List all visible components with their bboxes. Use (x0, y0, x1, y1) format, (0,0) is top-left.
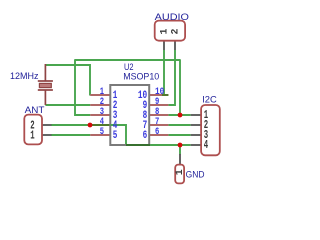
svg-text:4: 4 (204, 139, 208, 152)
wire W2 horizontal top (75, 59, 180, 61)
connector GND stub (179, 154, 181, 164)
connector I2C stubs (191, 115, 201, 145)
svg-text:1: 1 (174, 169, 185, 175)
svg-text:5: 5 (100, 126, 104, 138)
op-amp U2 body MSOP10 (110, 85, 149, 145)
connector AUDIO stubs (164, 41, 175, 50)
pin 8 stub (150, 114, 169, 116)
connector AUDIO box (155, 21, 185, 41)
pin 1 stub (90, 94, 109, 96)
wire ANT pin1 to IC pin5 (51, 134, 90, 136)
svg-text:12MHz: 12MHz (10, 71, 39, 82)
wire inside box pin4 (110, 125, 126, 144)
connector ANT box (24, 115, 42, 145)
crystal top plate (38, 80, 53, 82)
wire over box bottom dark (126, 144, 150, 146)
svg-text:AUDIO: AUDIO (155, 12, 189, 23)
svg-text:ANT: ANT (25, 105, 45, 116)
crystal bottom lead (44, 90, 46, 105)
wire ANT pin2 to IC pin4 (51, 124, 90, 126)
crystal top lead (44, 64, 46, 81)
connector GND box (175, 165, 184, 184)
wire crystal bottom to IC pin2 (45, 104, 90, 106)
wire IC pin4 net under box to I2C pin4 (110, 125, 191, 145)
wire IC pin6 to I2C pin3 (168, 134, 190, 136)
svg-text:6: 6 (155, 126, 159, 138)
svg-text:2: 2 (170, 28, 181, 34)
junction D2 (178, 113, 183, 118)
pin numbers outside left (100, 86, 104, 138)
wire crystal top to IC pin1 (45, 65, 90, 96)
pin numbers inside right (138, 90, 148, 142)
svg-text:1: 1 (159, 28, 170, 34)
wire IC pin8 to I2C pin1 (168, 114, 190, 116)
connector ANT stubs (42, 125, 52, 135)
wire W2 vertical left down to pin3 (75, 59, 90, 115)
svg-text:5: 5 (113, 130, 118, 142)
pin numbers outside right (155, 86, 164, 138)
wire AUDIO pin1 down to IC pin10 (163, 50, 165, 95)
svg-text:6: 6 (143, 130, 148, 142)
pin 10 stub (150, 94, 169, 96)
pin 3 stub (90, 114, 109, 116)
wire overlap olive on pin4 stub (90, 124, 109, 126)
svg-text:U2: U2 (124, 62, 134, 72)
svg-text:I2C: I2C (202, 94, 217, 105)
wire IC pin7 to I2C pin2 (168, 124, 190, 126)
pin 4 stub (90, 124, 109, 126)
crystal bottom plate (38, 89, 53, 91)
wire GND drop (179, 145, 181, 155)
crystal body rect (39, 83, 51, 87)
svg-text:1: 1 (30, 130, 34, 143)
wire overlap olive on pin10 stub (162, 94, 168, 96)
junction D1 (88, 123, 93, 128)
pin 7 stub (150, 124, 169, 126)
svg-text:GND: GND (186, 169, 205, 180)
pin 9 stub (150, 104, 169, 106)
pin 2 stub (90, 104, 109, 106)
crystal 12MHz leads and plates (38, 64, 53, 105)
pin 5 stub (90, 134, 109, 136)
svg-text:MSOP10: MSOP10 (123, 71, 159, 81)
connector I2C box (201, 105, 220, 155)
pin 6 stub (150, 134, 169, 136)
op-amp U2 pin stubs (90, 95, 168, 135)
wire AUDIO pin2 down to IC pin9 (168, 50, 175, 105)
junction D3 (178, 143, 183, 148)
wire W2 vertical right down to junction D2 (179, 59, 181, 115)
pin numbers inside left (113, 90, 118, 142)
